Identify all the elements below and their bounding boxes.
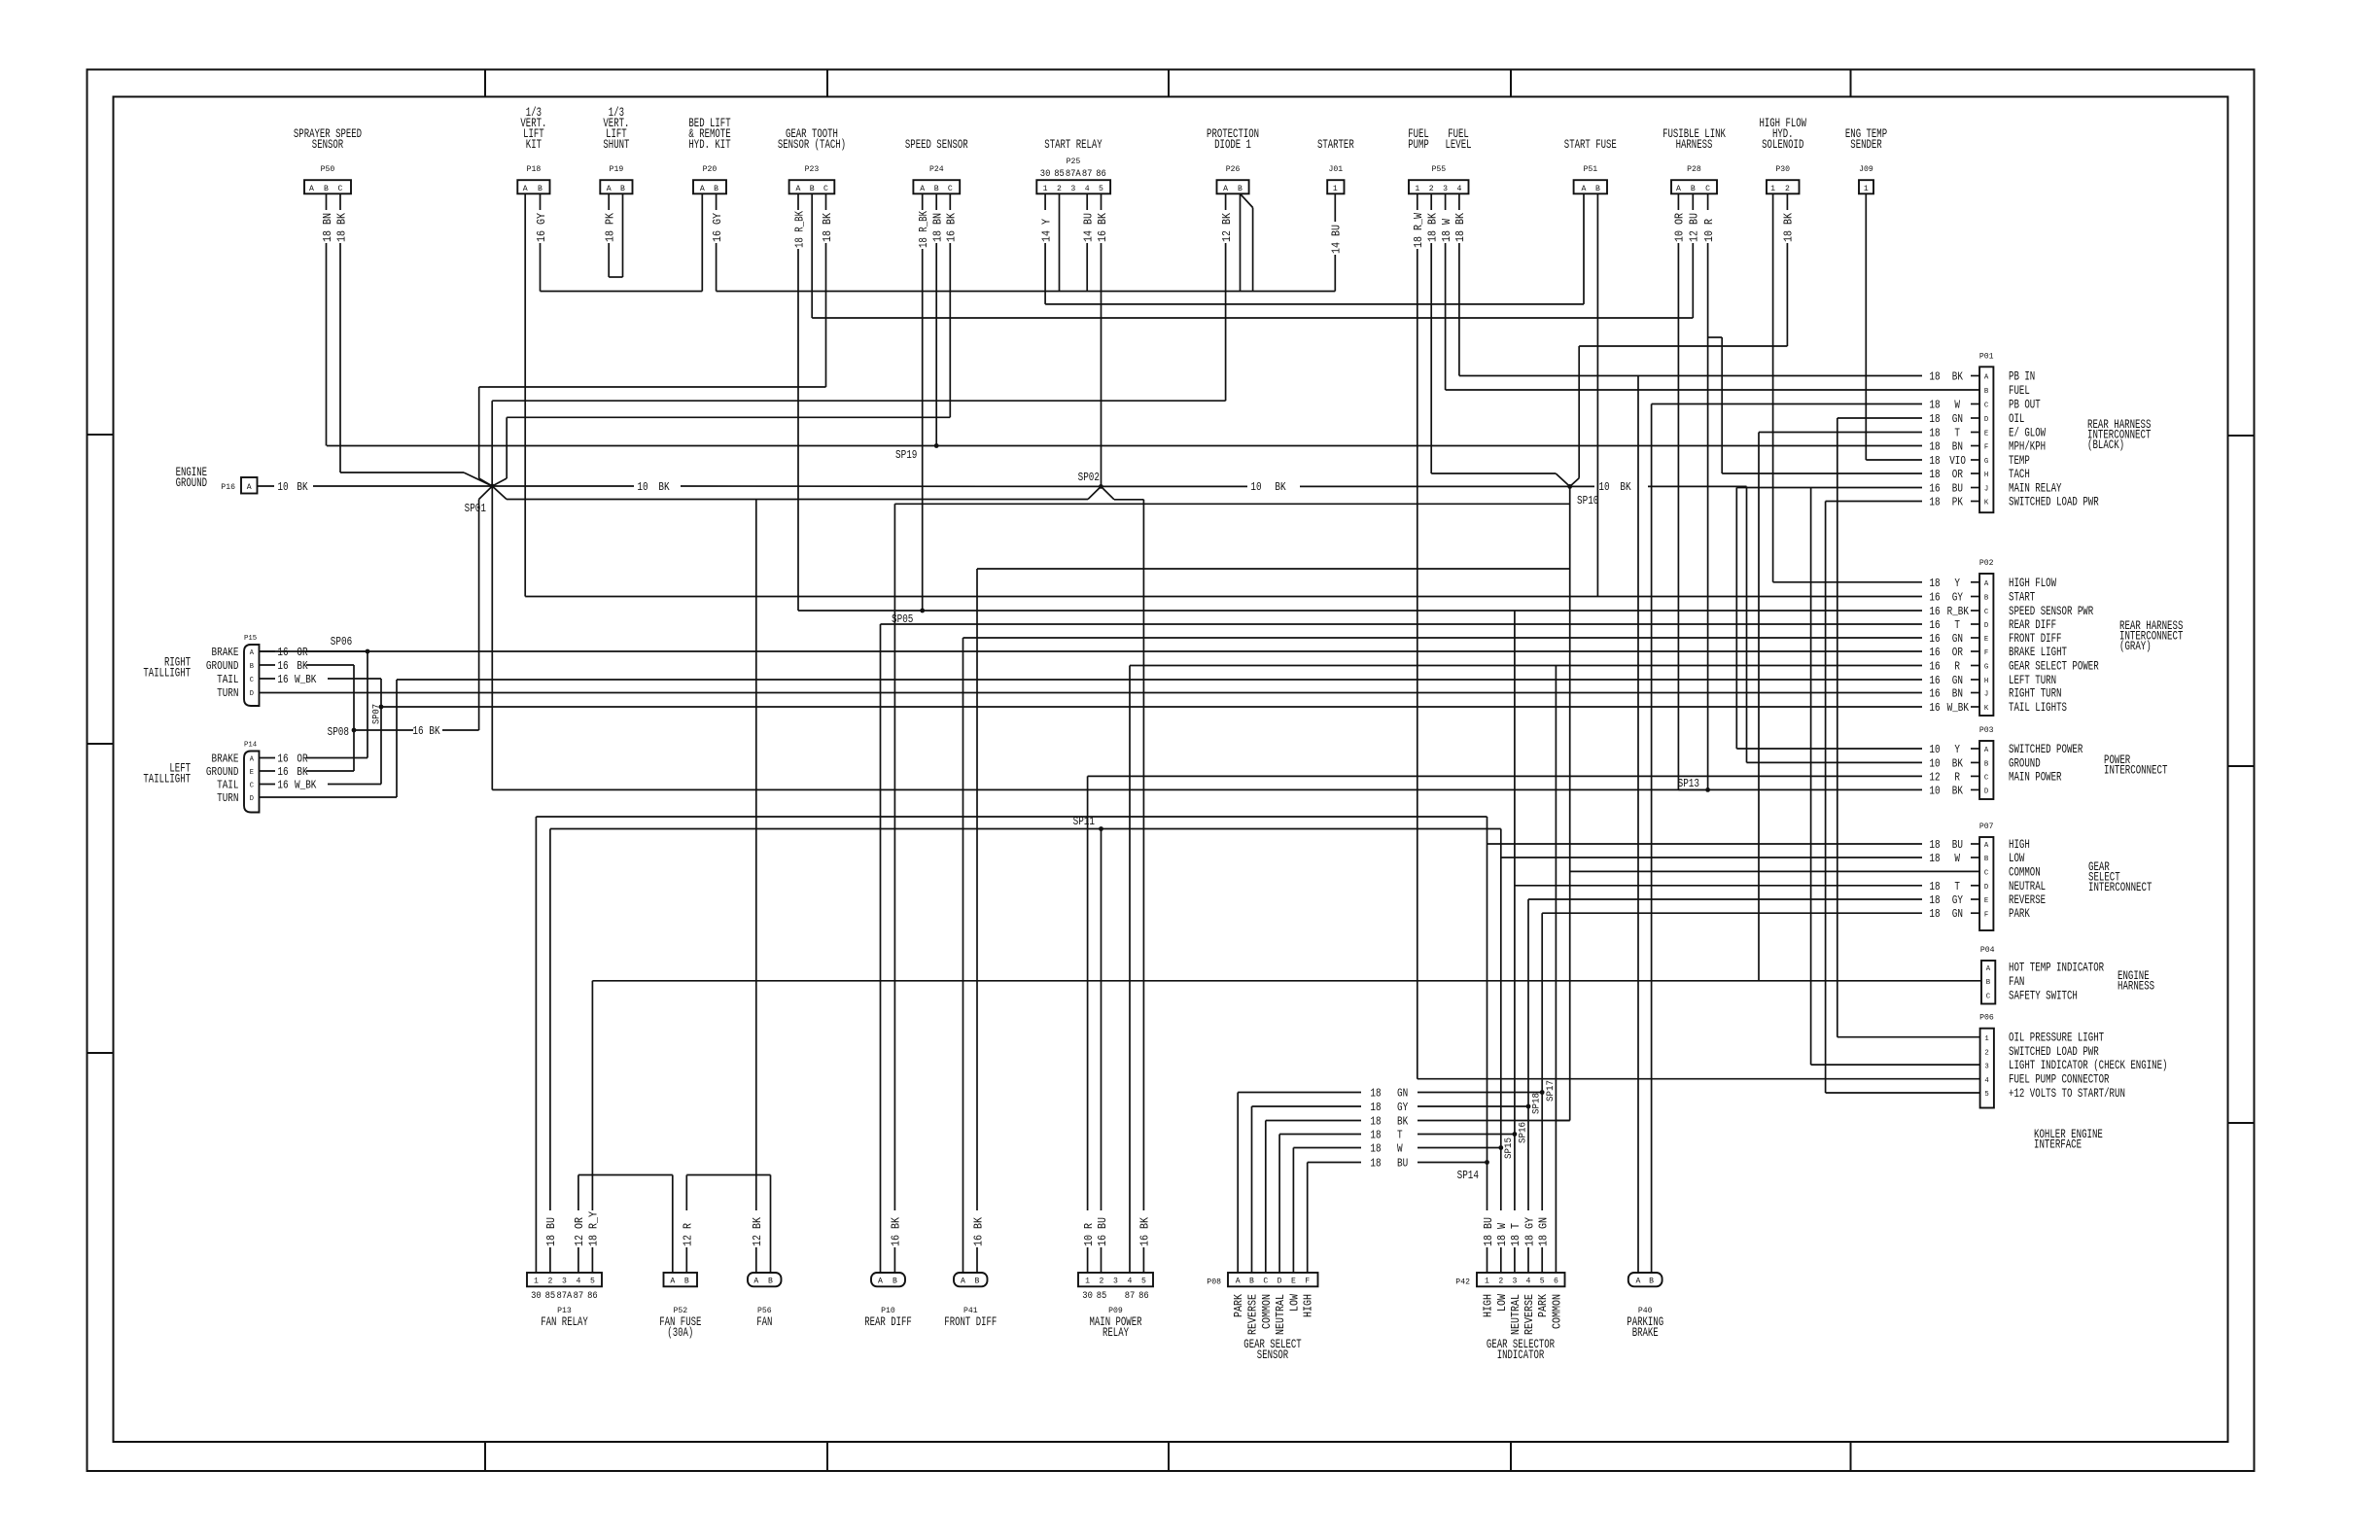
- svg-text:HIGH: HIGH: [1303, 1294, 1315, 1317]
- wire P52.B to P56.B: [686, 1174, 770, 1176]
- svg-text:16: 16: [1929, 647, 1940, 659]
- wire row P07.C COMMON from SP10 riser: [1570, 870, 1979, 872]
- svg-text:P42: P42: [1455, 1277, 1470, 1287]
- svg-text:E: E: [250, 769, 254, 777]
- svg-text:3: 3: [1443, 184, 1448, 193]
- svg-text:A: A: [700, 184, 706, 193]
- wire P23.A 18 R_BK down to P02.C row: [793, 193, 806, 611]
- connector P06 kohler engine interface: [1979, 1013, 2167, 1108]
- svg-text:TACH: TACH: [2009, 468, 2030, 481]
- connector P04 engine harness: [1980, 945, 2105, 1004]
- note text KOHLER ENGINE: [2034, 1128, 2103, 1141]
- wire P23.B down to fusible-link bus: [811, 193, 813, 318]
- svg-text:A: A: [878, 1277, 884, 1286]
- wire 16 R row P02.G GEAR SELECT POWER from P09.4: [1130, 661, 1979, 674]
- wire P13.4 to P52.A: [578, 1174, 673, 1176]
- svg-text:P04: P04: [1980, 945, 1995, 955]
- connector J01 starter: [1317, 138, 1354, 193]
- svg-text:GN: GN: [1397, 1088, 1408, 1101]
- wire ground collector y412 to SP01: [492, 401, 1225, 486]
- svg-text:D: D: [1984, 622, 1989, 630]
- svg-text:K: K: [1984, 705, 1989, 713]
- svg-text:SP02: SP02: [1078, 472, 1100, 484]
- svg-text:2: 2: [547, 1277, 552, 1286]
- svg-text:18 BU: 18 BU: [545, 1217, 558, 1246]
- drawing border inner frame: [114, 97, 2228, 1443]
- svg-text:2: 2: [1785, 184, 1790, 193]
- svg-text:B: B: [1984, 388, 1989, 396]
- wire P30.2 route into SP10: [1570, 346, 1788, 486]
- wire P55.2 horizontal into SP10: [1431, 473, 1570, 486]
- svg-text:SENDER: SENDER: [1850, 138, 1882, 152]
- wire P24.A 18 R_BK down to SP05: [918, 193, 930, 611]
- svg-text:OR: OR: [297, 647, 307, 659]
- svg-text:P51: P51: [1583, 164, 1597, 174]
- svg-text:J09: J09: [1859, 164, 1873, 174]
- svg-text:D: D: [250, 795, 254, 803]
- svg-text:BU: BU: [1952, 839, 1963, 852]
- wire P13.2 18 BU up: [545, 829, 558, 1274]
- svg-text:16 GY: 16 GY: [712, 213, 724, 242]
- svg-text:30: 30: [1082, 1291, 1093, 1302]
- svg-text:P10: P10: [881, 1306, 895, 1315]
- svg-text:NEUTRAL: NEUTRAL: [1510, 1294, 1522, 1335]
- wire SP01 south leg to P03.D ground row: [491, 486, 493, 789]
- svg-text:GN: GN: [1952, 633, 1963, 646]
- svg-text:W: W: [1397, 1143, 1403, 1156]
- svg-text:18 R_W: 18 R_W: [1413, 213, 1425, 248]
- svg-text:12 R: 12 R: [682, 1223, 695, 1246]
- wire P55.4 18 BK down to P01.A: [1454, 193, 1467, 375]
- connector P40 parking brake: [1627, 1273, 1663, 1340]
- svg-text:+12 VOLTS TO START/RUN: +12 VOLTS TO START/RUN: [2009, 1087, 2125, 1101]
- svg-text:P50: P50: [321, 164, 335, 174]
- svg-text:16: 16: [277, 647, 288, 659]
- svg-text:HYD. KIT: HYD. KIT: [688, 138, 731, 152]
- svg-text:TURN: TURN: [217, 791, 238, 805]
- svg-text:SP11: SP11: [1073, 816, 1095, 828]
- svg-text:P24: P24: [929, 164, 944, 174]
- svg-text:HOT TEMP INDICATOR: HOT TEMP INDICATOR: [2009, 962, 2104, 975]
- svg-text:18 BU: 18 BU: [1483, 1217, 1495, 1246]
- svg-text:P25: P25: [1067, 157, 1081, 166]
- svg-text:LEFT TURN: LEFT TURN: [2009, 674, 2056, 687]
- wire P08.C 18 BK: [1266, 1116, 1570, 1274]
- splice SP19: [895, 443, 939, 462]
- connector P08 gear select sensor: [1207, 1273, 1317, 1362]
- svg-text:(30A): (30A): [667, 1326, 693, 1340]
- splice SP11: [1073, 816, 1103, 831]
- svg-text:16: 16: [1929, 661, 1940, 674]
- svg-text:BN: BN: [1952, 688, 1963, 701]
- svg-text:SP08: SP08: [328, 726, 349, 739]
- wire P18.B to P20.A bus: [541, 291, 703, 293]
- svg-text:10 R: 10 R: [1083, 1223, 1096, 1246]
- svg-text:TAIL: TAIL: [217, 779, 238, 792]
- wire P26.A 12 BK down to ground collector: [1221, 193, 1234, 401]
- svg-text:16: 16: [1929, 606, 1940, 618]
- svg-text:A: A: [1582, 184, 1588, 193]
- svg-text:BRAKE: BRAKE: [1632, 1326, 1659, 1340]
- wire 18 W row P07.B LOW from P42.2: [1501, 853, 1979, 865]
- svg-text:P15: P15: [244, 635, 258, 643]
- svg-text:18: 18: [1370, 1130, 1381, 1142]
- svg-text:D: D: [1984, 788, 1989, 796]
- svg-text:12 BK: 12 BK: [1221, 213, 1234, 242]
- svg-text:INDICATOR: INDICATOR: [1497, 1348, 1545, 1362]
- svg-text:P30: P30: [1775, 164, 1790, 174]
- svg-text:18: 18: [1929, 469, 1940, 481]
- svg-text:SP06: SP06: [331, 636, 352, 648]
- svg-text:C: C: [1984, 609, 1989, 616]
- wire P56.B up: [770, 1175, 772, 1274]
- svg-text:B: B: [1984, 595, 1989, 603]
- svg-text:18 BK: 18 BK: [335, 213, 348, 242]
- svg-text:GN: GN: [1952, 413, 1963, 426]
- wire P51.A down to start-fuse bus: [1583, 193, 1585, 304]
- svg-text:B: B: [538, 184, 542, 193]
- svg-text:18 BK: 18 BK: [1783, 213, 1796, 242]
- svg-text:W_BK: W_BK: [1947, 702, 1969, 715]
- svg-text:Y: Y: [1954, 744, 1960, 756]
- connector P09 main power relay: [1078, 1273, 1153, 1340]
- svg-text:18: 18: [1929, 455, 1940, 468]
- svg-text:14 BU: 14 BU: [1331, 225, 1344, 254]
- wire row P01.B FUEL from P55.3: [1446, 389, 1980, 391]
- svg-text:Y: Y: [1954, 577, 1960, 590]
- wire P42.4 riser: [1523, 899, 1536, 1273]
- note text INTERFACE: [2034, 1138, 2082, 1152]
- wire P40.A up to PB IN row: [1637, 376, 1639, 1274]
- wire P56.A 12 BK up to ground link: [752, 500, 764, 1274]
- svg-text:BK: BK: [1275, 481, 1285, 494]
- svg-text:D: D: [1984, 416, 1989, 424]
- svg-text:FRONT DIFF: FRONT DIFF: [944, 1315, 997, 1329]
- wire taillight ground riser P15.B to P14.B with SP08: [353, 665, 355, 771]
- svg-text:14 Y: 14 Y: [1040, 219, 1053, 242]
- wire 18 T row P01.E E/GLOW to P04.B riser: [1759, 428, 1979, 440]
- wire P10.A up to P02.D REAR DIFF row: [880, 624, 882, 1273]
- connector P03 power interconnect: [1979, 725, 2083, 799]
- svg-text:REAR DIFF: REAR DIFF: [2009, 618, 2056, 632]
- svg-text:C: C: [1986, 994, 1991, 1001]
- svg-text:SPEED SENSOR PWR: SPEED SENSOR PWR: [2009, 605, 2094, 618]
- splice SP18: [1526, 1093, 1543, 1114]
- svg-text:10: 10: [1598, 481, 1609, 494]
- svg-text:A: A: [607, 184, 612, 193]
- svg-text:10: 10: [277, 481, 288, 494]
- wire P20.A down to bus: [701, 193, 703, 291]
- svg-text:F: F: [1305, 1277, 1310, 1286]
- svg-text:START: START: [2009, 591, 2036, 605]
- svg-text:5: 5: [1540, 1277, 1545, 1286]
- svg-text:87A: 87A: [556, 1291, 572, 1302]
- wire P52.B 12 R up to fan: [682, 1175, 695, 1274]
- wire 18 VIO row P01.G TEMP from J09: [1866, 455, 1979, 468]
- splice SP06: [331, 636, 370, 653]
- svg-text:A: A: [1984, 580, 1989, 588]
- svg-text:18 R_Y: 18 R_Y: [588, 1211, 601, 1246]
- wire SP01 leg to SP08 riser: [479, 486, 493, 730]
- svg-text:A: A: [309, 184, 315, 193]
- svg-text:16: 16: [277, 766, 288, 779]
- note text HARNESS: [2117, 980, 2154, 994]
- wire P42.6 riser: [1555, 666, 1557, 1274]
- svg-text:F: F: [1984, 649, 1988, 657]
- splice SP17: [1540, 1080, 1557, 1102]
- connector P20 bed lift & remote hyd kit: [688, 117, 731, 193]
- svg-text:PUMP: PUMP: [1408, 138, 1429, 152]
- svg-text:1: 1: [1333, 184, 1338, 193]
- svg-text:(GRAY): (GRAY): [2119, 640, 2152, 653]
- P08 pin name labels: [1233, 1294, 1315, 1335]
- svg-text:GEAR SELECT POWER: GEAR SELECT POWER: [2009, 660, 2099, 674]
- connector P25 start relay: [1036, 138, 1110, 193]
- wire P30.1 down to P02.A HIGH FLOW row: [1772, 193, 1774, 582]
- svg-text:10 R: 10 R: [1703, 219, 1716, 242]
- wire 16 T row P02.D REAR DIFF from P10.A: [881, 619, 1980, 632]
- splice SP14: [1457, 1160, 1489, 1182]
- svg-text:GROUND: GROUND: [206, 659, 239, 673]
- splice SP02: [1078, 472, 1103, 489]
- connector P28 fusible link harness: [1662, 127, 1726, 193]
- svg-text:SENSOR: SENSOR: [312, 138, 344, 152]
- svg-text:SP05: SP05: [892, 613, 913, 626]
- svg-text:GROUND: GROUND: [206, 765, 239, 779]
- svg-text:P09: P09: [1108, 1306, 1123, 1315]
- note text SELECT: [2088, 871, 2120, 885]
- svg-text:2: 2: [1429, 184, 1434, 193]
- connector P10 rear diff: [864, 1273, 912, 1329]
- svg-text:18: 18: [1929, 853, 1940, 865]
- svg-text:18: 18: [1929, 371, 1940, 384]
- connector P18 1/3 vert lift kit: [517, 106, 549, 193]
- wire P41.A up to P02.E FRONT DIFF row: [962, 638, 964, 1273]
- wire P18.B 16 GY down: [536, 193, 548, 291]
- svg-text:B: B: [324, 184, 329, 193]
- svg-text:RELAY: RELAY: [1102, 1326, 1129, 1340]
- wire P10.B 16 BK ground up: [891, 504, 903, 1273]
- svg-text:GROUND: GROUND: [176, 476, 207, 490]
- wire P52.A up: [672, 1175, 674, 1274]
- svg-text:DIODE 1: DIODE 1: [1214, 138, 1251, 152]
- svg-text:R: R: [1954, 771, 1960, 784]
- svg-text:OR: OR: [297, 753, 307, 766]
- splice SP01: [465, 484, 495, 515]
- svg-text:18: 18: [1929, 400, 1940, 412]
- svg-text:BU: BU: [1952, 483, 1963, 496]
- wire SP10 riser down to COMMON bus: [1569, 486, 1571, 1120]
- svg-text:3: 3: [1984, 1063, 1989, 1070]
- connector P24 speed sensor: [905, 138, 968, 193]
- svg-text:SWITCHED LOAD PWR: SWITCHED LOAD PWR: [2009, 496, 2099, 509]
- wire COMMON bus corner to SP10 riser: [1556, 1120, 1569, 1122]
- wire riser P01.J tap down to P06.3: [1810, 488, 1812, 1066]
- svg-text:3: 3: [1113, 1277, 1118, 1286]
- svg-text:A: A: [1223, 184, 1229, 193]
- svg-text:A: A: [796, 184, 802, 193]
- splice SP07: [371, 704, 384, 724]
- svg-text:B: B: [1249, 1277, 1254, 1286]
- svg-text:18 W: 18 W: [1496, 1223, 1509, 1246]
- connector P30 high flow hyd solenoid: [1759, 117, 1806, 193]
- wire P15.C 16 W_BK tail: [260, 674, 382, 686]
- svg-text:F: F: [1984, 911, 1988, 919]
- wire 10 BK engine ground P16 to SP01: [258, 481, 493, 494]
- svg-text:SENSOR: SENSOR: [1257, 1348, 1289, 1362]
- svg-text:FAN: FAN: [756, 1315, 772, 1329]
- border zone ticks bottom: [485, 1442, 1851, 1471]
- svg-text:18: 18: [1929, 413, 1940, 426]
- svg-text:B: B: [892, 1277, 897, 1286]
- wire riser P01.K down to P06.5: [1825, 502, 1827, 1094]
- wire 10 BK row P03.B GROUND from SP10: [1747, 757, 1980, 770]
- wire P24.B 18 BN down to SP19: [932, 193, 945, 445]
- splice SP08: [328, 726, 357, 739]
- svg-text:K: K: [1984, 500, 1989, 507]
- svg-text:A: A: [961, 1277, 966, 1286]
- svg-text:J: J: [1984, 486, 1988, 494]
- svg-text:D: D: [250, 690, 254, 698]
- note text (GRAY): [2119, 640, 2152, 653]
- svg-text:TAILLIGHT: TAILLIGHT: [143, 667, 191, 681]
- svg-text:16: 16: [1929, 675, 1940, 687]
- svg-text:INTERCONNECT: INTERCONNECT: [2104, 764, 2168, 778]
- svg-text:10: 10: [1250, 481, 1261, 494]
- svg-text:B: B: [1984, 856, 1989, 863]
- svg-text:B: B: [768, 1277, 773, 1286]
- wire P19.A 18 PK shunt leg: [605, 193, 617, 277]
- connector P41 front diff: [944, 1273, 997, 1329]
- svg-text:REAR DIFF: REAR DIFF: [864, 1315, 912, 1329]
- svg-text:85: 85: [545, 1291, 556, 1302]
- wire P13.1 bus to P07.A corner: [536, 817, 1487, 844]
- svg-text:1: 1: [1415, 184, 1419, 193]
- svg-text:C: C: [250, 783, 254, 790]
- svg-text:FRONT DIFF: FRONT DIFF: [2009, 632, 2062, 646]
- connector P23 gear tooth sensor (tach): [778, 127, 846, 193]
- svg-text:INTERFACE: INTERFACE: [2034, 1138, 2082, 1152]
- svg-text:R: R: [1954, 661, 1960, 674]
- svg-text:TURN: TURN: [217, 686, 238, 700]
- wire J01.1 14 BU down to start bus: [1331, 193, 1344, 291]
- svg-text:SP17: SP17: [1545, 1080, 1557, 1102]
- svg-text:P28: P28: [1687, 164, 1701, 174]
- svg-text:BK: BK: [1952, 757, 1963, 770]
- svg-text:A: A: [920, 184, 926, 193]
- svg-text:16: 16: [1929, 619, 1940, 632]
- svg-text:GROUND: GROUND: [2009, 756, 2041, 770]
- svg-text:OR: OR: [1952, 647, 1963, 659]
- wire 16 BN row P02.J RIGHT TURN from P15.D: [260, 688, 1980, 701]
- svg-text:OR: OR: [1952, 469, 1963, 481]
- border zone ticks right: [2228, 436, 2255, 1123]
- svg-text:10: 10: [637, 481, 647, 494]
- wire P25.4 14 BU down to start bus: [1083, 193, 1096, 291]
- svg-text:18 BK: 18 BK: [1427, 213, 1440, 242]
- svg-text:INTERCONNECT: INTERCONNECT: [2088, 881, 2152, 894]
- wire row P06.1 OIL PRESSURE LIGHT riser: [1837, 1036, 1980, 1038]
- connector P02 rear harness interconnect gray: [1979, 558, 2099, 716]
- svg-text:PARK: PARK: [1537, 1294, 1550, 1317]
- svg-text:B: B: [1649, 1277, 1654, 1286]
- wire P42.3 riser: [1510, 611, 1522, 1273]
- connector P07 gear select interconnect: [1979, 822, 2046, 930]
- wire 16 GN row P02.H LEFT TURN from P14.D: [397, 675, 1979, 687]
- svg-text:R_BK: R_BK: [1947, 606, 1969, 618]
- wire P28.C 10 R down to SP13: [1703, 193, 1716, 789]
- svg-text:OIL PRESSURE LIGHT: OIL PRESSURE LIGHT: [2009, 1032, 2104, 1045]
- svg-text:MPH/KPH: MPH/KPH: [2009, 440, 2046, 454]
- svg-text:J01: J01: [1329, 164, 1344, 174]
- svg-text:1: 1: [1770, 184, 1775, 193]
- wire P09.2 16 BU up to SP11: [1097, 829, 1109, 1274]
- svg-text:D: D: [1277, 1277, 1282, 1286]
- note text INTERCONNECT: [2119, 630, 2184, 644]
- svg-text:16 BU: 16 BU: [1097, 1217, 1109, 1246]
- wire 18 OR row P01.H TACH from P28.C jog: [1722, 469, 1979, 481]
- note text INTERCONNECT: [2087, 429, 2152, 442]
- svg-text:NEUTRAL: NEUTRAL: [2009, 880, 2046, 893]
- svg-text:E: E: [1291, 1277, 1296, 1286]
- wire 18 T row P07.D NEUTRAL from P42.3: [1515, 881, 1979, 893]
- svg-text:LEVEL: LEVEL: [1446, 138, 1472, 152]
- svg-text:87: 87: [574, 1291, 584, 1302]
- connector J09 eng temp sender: [1845, 127, 1887, 193]
- svg-text:P23: P23: [805, 164, 820, 174]
- splice SP16: [1513, 1122, 1529, 1143]
- svg-text:18 R_BK: 18 R_BK: [793, 211, 806, 248]
- splice SP13: [1678, 778, 1710, 792]
- svg-text:SPEED SENSOR: SPEED SENSOR: [905, 138, 968, 152]
- svg-text:5: 5: [1099, 184, 1103, 193]
- wire 10 Y row P03.A SWITCHED POWER: [1736, 744, 1979, 756]
- svg-text:F: F: [1984, 444, 1988, 452]
- svg-text:P13: P13: [557, 1306, 572, 1315]
- svg-text:GN: GN: [1952, 908, 1963, 921]
- svg-text:16: 16: [277, 660, 288, 673]
- svg-text:P26: P26: [1226, 164, 1241, 174]
- wire row P06.3 LIGHT INDICATOR riser: [1811, 1064, 1980, 1066]
- svg-text:P07: P07: [1979, 822, 1994, 831]
- wire P14.C 16 W_BK: [260, 780, 382, 792]
- svg-text:16 BK: 16 BK: [972, 1217, 985, 1246]
- svg-text:1: 1: [1043, 184, 1048, 193]
- svg-text:18: 18: [1370, 1143, 1381, 1156]
- wire P19.B shunt leg: [622, 193, 624, 277]
- svg-text:2: 2: [1100, 1277, 1104, 1286]
- svg-text:86: 86: [1096, 169, 1106, 180]
- svg-text:A: A: [1986, 965, 1991, 973]
- svg-text:BK: BK: [1397, 1116, 1408, 1129]
- connector P13 fan relay: [527, 1273, 602, 1329]
- svg-text:18: 18: [1370, 1102, 1381, 1114]
- svg-text:P08: P08: [1207, 1277, 1221, 1287]
- svg-text:D: D: [1984, 884, 1989, 892]
- svg-text:P01: P01: [1979, 351, 1994, 361]
- wire P09.4 up to P02.G: [1129, 666, 1131, 1274]
- connector P01 rear harness interconnect black: [1979, 351, 2099, 512]
- svg-text:RIGHT TURN: RIGHT TURN: [2009, 687, 2062, 701]
- wire riser P01.D down to P06.1: [1837, 418, 1838, 1037]
- svg-text:FUEL: FUEL: [2009, 384, 2030, 398]
- svg-text:FAN: FAN: [2009, 975, 2024, 989]
- svg-text:P40: P40: [1638, 1306, 1653, 1315]
- wire P08.B 18 GY: [1252, 1102, 1529, 1273]
- wire P08.E 18 W: [1293, 1143, 1500, 1274]
- svg-text:SP10: SP10: [1577, 495, 1598, 507]
- svg-text:16: 16: [412, 725, 423, 738]
